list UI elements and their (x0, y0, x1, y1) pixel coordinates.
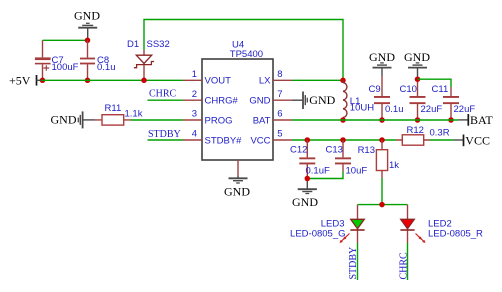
svg-text:10UH: 10UH (350, 102, 374, 113)
junction C11 bottom (448, 117, 454, 123)
junction R13 top (379, 137, 385, 143)
svg-text:GND: GND (249, 96, 270, 107)
svg-text:VOUT: VOUT (205, 76, 232, 87)
svg-text:2: 2 (192, 89, 197, 100)
svg-text:LX: LX (259, 76, 271, 87)
wire BAT line (292, 119, 458, 121)
port BAT (458, 113, 493, 127)
pin 7 GND (249, 89, 292, 107)
svg-text:8: 8 (277, 69, 282, 80)
svg-text:BAT: BAT (253, 115, 271, 126)
svg-text:7: 7 (277, 89, 282, 100)
ground at pin 7 (292, 92, 336, 110)
svg-text:STDBY: STDBY (148, 129, 181, 140)
wire pin3 (131, 119, 183, 121)
ground top-left (74, 9, 100, 41)
pin 3 PROG (183, 109, 232, 127)
ground above C9 (369, 50, 395, 76)
junction C8 top (85, 38, 91, 44)
wire LX to L1 (292, 79, 343, 81)
wire C13 bottom to C12 bottom (307, 172, 343, 179)
capacitor C9 (369, 76, 404, 120)
svg-text:100uF: 100uF (52, 62, 79, 73)
pin 8 LX (259, 69, 292, 87)
capacitor C13 (326, 140, 368, 177)
port +5V (9, 74, 42, 88)
svg-text:C9: C9 (369, 84, 381, 95)
svg-text:GND: GND (292, 195, 318, 209)
junction LX node (340, 78, 346, 84)
junction C8 bottom (85, 78, 91, 84)
svg-text:1.1k: 1.1k (125, 108, 143, 119)
svg-text:LED-0805_R: LED-0805_R (428, 229, 483, 240)
wire LED3 to net (357, 243, 359, 280)
svg-text:GND: GND (51, 113, 77, 127)
svg-text:22uF: 22uF (421, 104, 443, 115)
inductor L1 10UH (343, 80, 374, 120)
wire +5V rail (42, 79, 184, 81)
svg-text:GND: GND (404, 50, 430, 64)
svg-text:4: 4 (192, 129, 197, 140)
capacitor C12 (290, 140, 330, 177)
wire VCC line left (292, 139, 396, 141)
svg-text:0.1uF: 0.1uF (306, 166, 330, 177)
svg-text:LED-0805_G: LED-0805_G (290, 229, 345, 240)
svg-text:C11: C11 (432, 84, 449, 95)
svg-text:GND: GND (309, 93, 335, 107)
LED2 LED-0805_R (400, 205, 483, 243)
svg-text:C13: C13 (326, 145, 343, 156)
wire top loop D1 to LX (144, 20, 343, 81)
diode D1 SS32 (127, 39, 170, 80)
svg-text:SS32: SS32 (147, 39, 170, 50)
svg-text:0.3R: 0.3R (430, 127, 450, 138)
svg-text:PROG: PROG (205, 115, 233, 126)
capacitor C7 (35, 40, 79, 80)
svg-text:0.1u: 0.1u (97, 62, 116, 73)
junction D1 anode (141, 78, 147, 84)
junction C12 top (305, 137, 311, 143)
junction C10 top (415, 76, 421, 82)
wire pin4 (148, 139, 184, 141)
wire LED2 to net (407, 243, 409, 280)
ground above C10 (404, 50, 430, 77)
ground at R11 (51, 111, 95, 128)
svg-text:D1: D1 (127, 39, 139, 50)
resistor R12 (396, 125, 450, 145)
svg-text:C10: C10 (400, 84, 417, 95)
svg-text:VCC: VCC (250, 135, 270, 146)
svg-text:6: 6 (277, 109, 282, 120)
junction C9 bottom (379, 117, 385, 123)
wire pin2 (148, 99, 184, 101)
junction C12 bottom (305, 176, 311, 182)
svg-text:GND: GND (74, 9, 100, 23)
svg-text:STDBY: STDBY (348, 247, 359, 280)
svg-text:C12: C12 (290, 145, 307, 156)
pin 1 VOUT (183, 69, 231, 87)
svg-text:10uF: 10uF (346, 166, 368, 177)
wire C10 to C11 top (418, 79, 452, 87)
resistor R13 (358, 140, 400, 178)
svg-text:BAT: BAT (470, 113, 493, 127)
svg-text:3: 3 (192, 109, 197, 120)
pin GND bottom of IC (237, 160, 239, 176)
wire VCC line right (430, 139, 454, 141)
svg-text:0.1u: 0.1u (385, 104, 404, 115)
LED3 LED-0805_G (290, 205, 365, 243)
svg-text:STDBY#: STDBY# (205, 135, 243, 146)
svg-text:GND: GND (224, 184, 250, 198)
svg-text:VCC: VCC (465, 134, 490, 148)
svg-text:5: 5 (277, 129, 282, 140)
junction LED row (379, 202, 385, 208)
svg-text:R11: R11 (105, 103, 122, 114)
svg-text:GND: GND (369, 50, 395, 64)
svg-text:CHRC: CHRC (149, 89, 177, 100)
ground below C12 (292, 179, 318, 209)
svg-text:CHRC: CHRC (399, 252, 410, 280)
svg-text:CHRG#: CHRG# (205, 96, 239, 107)
capacitor C10 (400, 77, 443, 121)
junction C13 top (340, 137, 346, 143)
svg-text:R12: R12 (407, 125, 424, 136)
svg-text:R13: R13 (358, 145, 375, 156)
junction C7 bottom (40, 78, 46, 84)
IC U4 TP5400 (202, 40, 273, 160)
pin 4 STDBY# (183, 129, 242, 147)
svg-text:1: 1 (192, 69, 197, 80)
junction L1 bottom (340, 117, 346, 123)
wire LED row (358, 204, 408, 206)
port VCC (454, 134, 490, 148)
pin 5 VCC (250, 129, 292, 147)
svg-text:+5V: +5V (9, 74, 31, 88)
pin 6 BAT (253, 109, 292, 127)
svg-text:1k: 1k (389, 160, 399, 171)
wire R13 to LED row (381, 178, 383, 205)
capacitor C11 (432, 84, 476, 120)
ground below IC (224, 176, 250, 198)
pin 2 CHRG# (183, 89, 238, 107)
wire C7 to C8 top (43, 39, 88, 41)
svg-text:TP5400: TP5400 (230, 49, 263, 60)
resistor R11 (95, 103, 143, 125)
capacitor C8 (80, 40, 116, 80)
junction C10 bottom (415, 117, 421, 123)
